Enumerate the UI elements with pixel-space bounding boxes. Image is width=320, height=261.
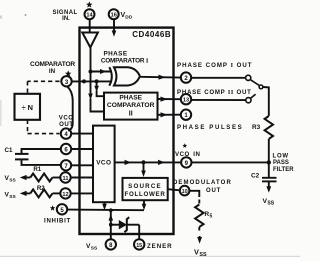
svg-text:5: 5 <box>210 214 213 220</box>
pin 3 <box>61 76 71 86</box>
svg-text:FILTER: FILTER <box>273 167 294 173</box>
wire pin 7 to VCO <box>71 164 93 166</box>
dashed wire R5 to VSS with arrow <box>197 227 202 244</box>
svg-text:12: 12 <box>62 192 68 198</box>
pin 8 <box>106 239 116 249</box>
wire pin 9 to node C <box>192 161 269 163</box>
svg-text:CD4046B: CD4046B <box>132 30 171 39</box>
svg-text:COMPARATOR I: COMPARATOR I <box>101 58 149 65</box>
wire source follower bottom to bus with arrow <box>142 200 147 210</box>
wire zener cathode down to pin 15 <box>138 225 140 240</box>
pin 16 <box>109 9 119 19</box>
svg-text:V: V <box>194 248 199 257</box>
divide-by-N box <box>15 94 41 120</box>
label VSS at pin 8 <box>86 243 98 252</box>
zener anode junction dot <box>109 223 113 227</box>
scan speck <box>0 16 2 19</box>
pin 7 <box>61 160 71 170</box>
wire switch common to R3 <box>263 87 269 116</box>
wire C2 to VSS with arrow <box>266 181 271 192</box>
svg-text:PHASE: PHASE <box>119 95 142 102</box>
wire pin 6 to VCO <box>71 148 93 150</box>
input buffer amplifier <box>82 33 98 48</box>
label VSS below C2 <box>263 198 275 207</box>
wire node A to XOR input 1 with arrow <box>91 69 113 74</box>
pin 5 <box>57 204 67 214</box>
svg-text:SS: SS <box>267 200 274 206</box>
label COMPARATOR IN <box>30 61 75 75</box>
wire VCO output to node D with arrow <box>115 160 144 165</box>
label SOURCE FOLLOWER <box>125 183 166 198</box>
wire PCII output to pin 1 with arrow <box>158 112 182 117</box>
label LOW PASS FILTER <box>273 154 295 173</box>
svg-text:II: II <box>129 111 133 118</box>
pin 9 <box>181 157 191 167</box>
resistor R5 <box>195 200 203 227</box>
junction dot on pin3 wire <box>82 79 86 83</box>
label VSS for R2 <box>5 192 17 201</box>
star marker above pin 14 <box>86 1 92 7</box>
wire node A down to phase comparator II input 2 <box>88 72 104 112</box>
svg-text:SOURCE: SOURCE <box>128 183 162 190</box>
switch contact II (open circle) <box>246 98 251 103</box>
label PHASE COMPARATOR I <box>101 50 149 64</box>
wire pin 2 to switch contact <box>191 77 246 79</box>
wire source follower to pin 10 <box>168 189 180 190</box>
wire pin 12 to VCO <box>71 192 93 194</box>
svg-text:R1: R1 <box>33 166 41 173</box>
capacitor C2 <box>262 162 277 181</box>
svg-text:DEMODULATOR: DEMODULATOR <box>173 180 232 186</box>
svg-text:SS: SS <box>9 177 16 183</box>
wire bus down to pin 8 with up arrow <box>109 208 114 239</box>
svg-text:SS: SS <box>9 194 16 200</box>
label DEMODULATOR OUT <box>173 180 232 194</box>
divide-by-N dashed wire to pin 4 <box>28 120 60 134</box>
svg-text:OUT: OUT <box>206 188 221 194</box>
svg-text:11: 11 <box>63 176 69 182</box>
svg-text:PHASE: PHASE <box>103 50 127 57</box>
resistor R3 <box>265 116 273 139</box>
wire VCO bottom to bus with arrow <box>102 202 107 210</box>
svg-text:C2: C2 <box>251 172 260 179</box>
svg-text:COMPARATOR: COMPARATOR <box>107 102 155 109</box>
svg-text:PHASE PULSES: PHASE PULSES <box>177 124 243 131</box>
switch contact I (open circle) <box>246 75 251 80</box>
wire VDD into package with arrow <box>112 19 117 37</box>
svg-text:PHASE COMP I OUT: PHASE COMP I OUT <box>177 62 253 69</box>
XOR gate phase comparator I <box>109 67 140 86</box>
svg-text:DD: DD <box>125 14 132 20</box>
pin 13 <box>181 94 191 104</box>
wire pin 5 to internal bus <box>67 209 144 212</box>
source follower box <box>123 178 168 200</box>
switch common node <box>259 85 263 89</box>
phase comparator II box <box>104 93 158 120</box>
capacitor C1 <box>15 149 61 165</box>
wire pin 10 to R5 <box>189 191 199 197</box>
svg-text:PASS: PASS <box>273 160 289 166</box>
pin 4 <box>61 128 71 138</box>
wire pin 3 into package <box>72 80 112 82</box>
node A junction dot <box>89 70 93 74</box>
star marker at pin 5 <box>50 205 55 210</box>
IC package outline U1 CD4046B <box>80 28 174 234</box>
wire pin 13 to switch contact <box>191 99 246 101</box>
zener diode D1 <box>111 217 139 232</box>
scan speck <box>25 14 27 16</box>
svg-text:÷ N: ÷ N <box>22 103 33 112</box>
pin 15 <box>134 239 144 249</box>
wire XOR output to pin 2 with arrow <box>140 75 181 80</box>
label VDD <box>121 12 133 20</box>
label VSS below R5 <box>194 248 207 259</box>
switch blade from contact I to common <box>250 80 259 86</box>
svg-text:LOW: LOW <box>273 154 289 160</box>
scan artifact: left edge smudge <box>0 100 2 126</box>
label R5 <box>205 211 213 220</box>
pin 1 <box>181 110 191 120</box>
svg-text:R3: R3 <box>252 124 261 131</box>
resistor R1 with arrow to VSS <box>20 174 61 182</box>
star marker at pin 3 <box>65 70 71 76</box>
svg-text:FOLLOWER: FOLLOWER <box>125 191 166 198</box>
svg-text:SS: SS <box>199 252 207 258</box>
wire node D down to source follower with arrow <box>141 162 146 177</box>
label VSS for R1 <box>5 175 17 184</box>
svg-text:15: 15 <box>136 243 142 249</box>
scan artifact: bottom rule <box>0 256 300 257</box>
pin 6 <box>61 144 71 154</box>
svg-text:IN: IN <box>49 68 56 75</box>
wire node D to pin 9 with arrow <box>144 160 182 165</box>
svg-text:SS: SS <box>91 245 98 251</box>
pin 14 <box>85 9 95 19</box>
wire pin 11 to VCO <box>71 177 93 179</box>
wire PCII output to pin 13 with arrow <box>158 97 182 102</box>
svg-text:VCO: VCO <box>96 159 111 166</box>
svg-text:16: 16 <box>111 13 117 19</box>
svg-text:ZENER: ZENER <box>147 243 172 250</box>
label VCO OUT <box>59 115 74 128</box>
label SIGNAL IN. <box>52 10 77 22</box>
divide-by-N dashed wire to pin 3 <box>28 81 60 93</box>
label PHASE COMPARATOR II <box>107 95 155 118</box>
wire R3 to node C <box>268 139 270 163</box>
node C junction dot <box>267 160 271 164</box>
node D junction dot <box>141 160 145 164</box>
node B junction dot <box>95 79 99 83</box>
VCO box <box>93 126 115 203</box>
wire pin 4 to VCO <box>71 133 93 135</box>
wire buffer output down to node A <box>90 48 92 72</box>
pin 11 <box>60 172 70 182</box>
pin 12 <box>60 188 70 198</box>
svg-text:10: 10 <box>182 189 188 195</box>
resistor R2 with arrow to VSS <box>20 189 61 197</box>
pin 2 <box>181 72 191 82</box>
wire pin14 to buffer <box>89 19 91 32</box>
feedback wire pin 3 to pin 4 <box>67 86 73 130</box>
svg-text:IN.: IN. <box>62 16 70 22</box>
svg-text:13: 13 <box>183 98 189 104</box>
svg-text:INHIBIT: INHIBIT <box>44 217 71 224</box>
star marker at pin 9 <box>182 143 187 148</box>
switch open stub from contact II <box>250 94 255 98</box>
pin 10 <box>180 186 190 196</box>
svg-text:14: 14 <box>86 13 93 19</box>
wire node B down to phase comparator II input 1 <box>94 81 104 96</box>
svg-text:C1: C1 <box>5 147 13 154</box>
